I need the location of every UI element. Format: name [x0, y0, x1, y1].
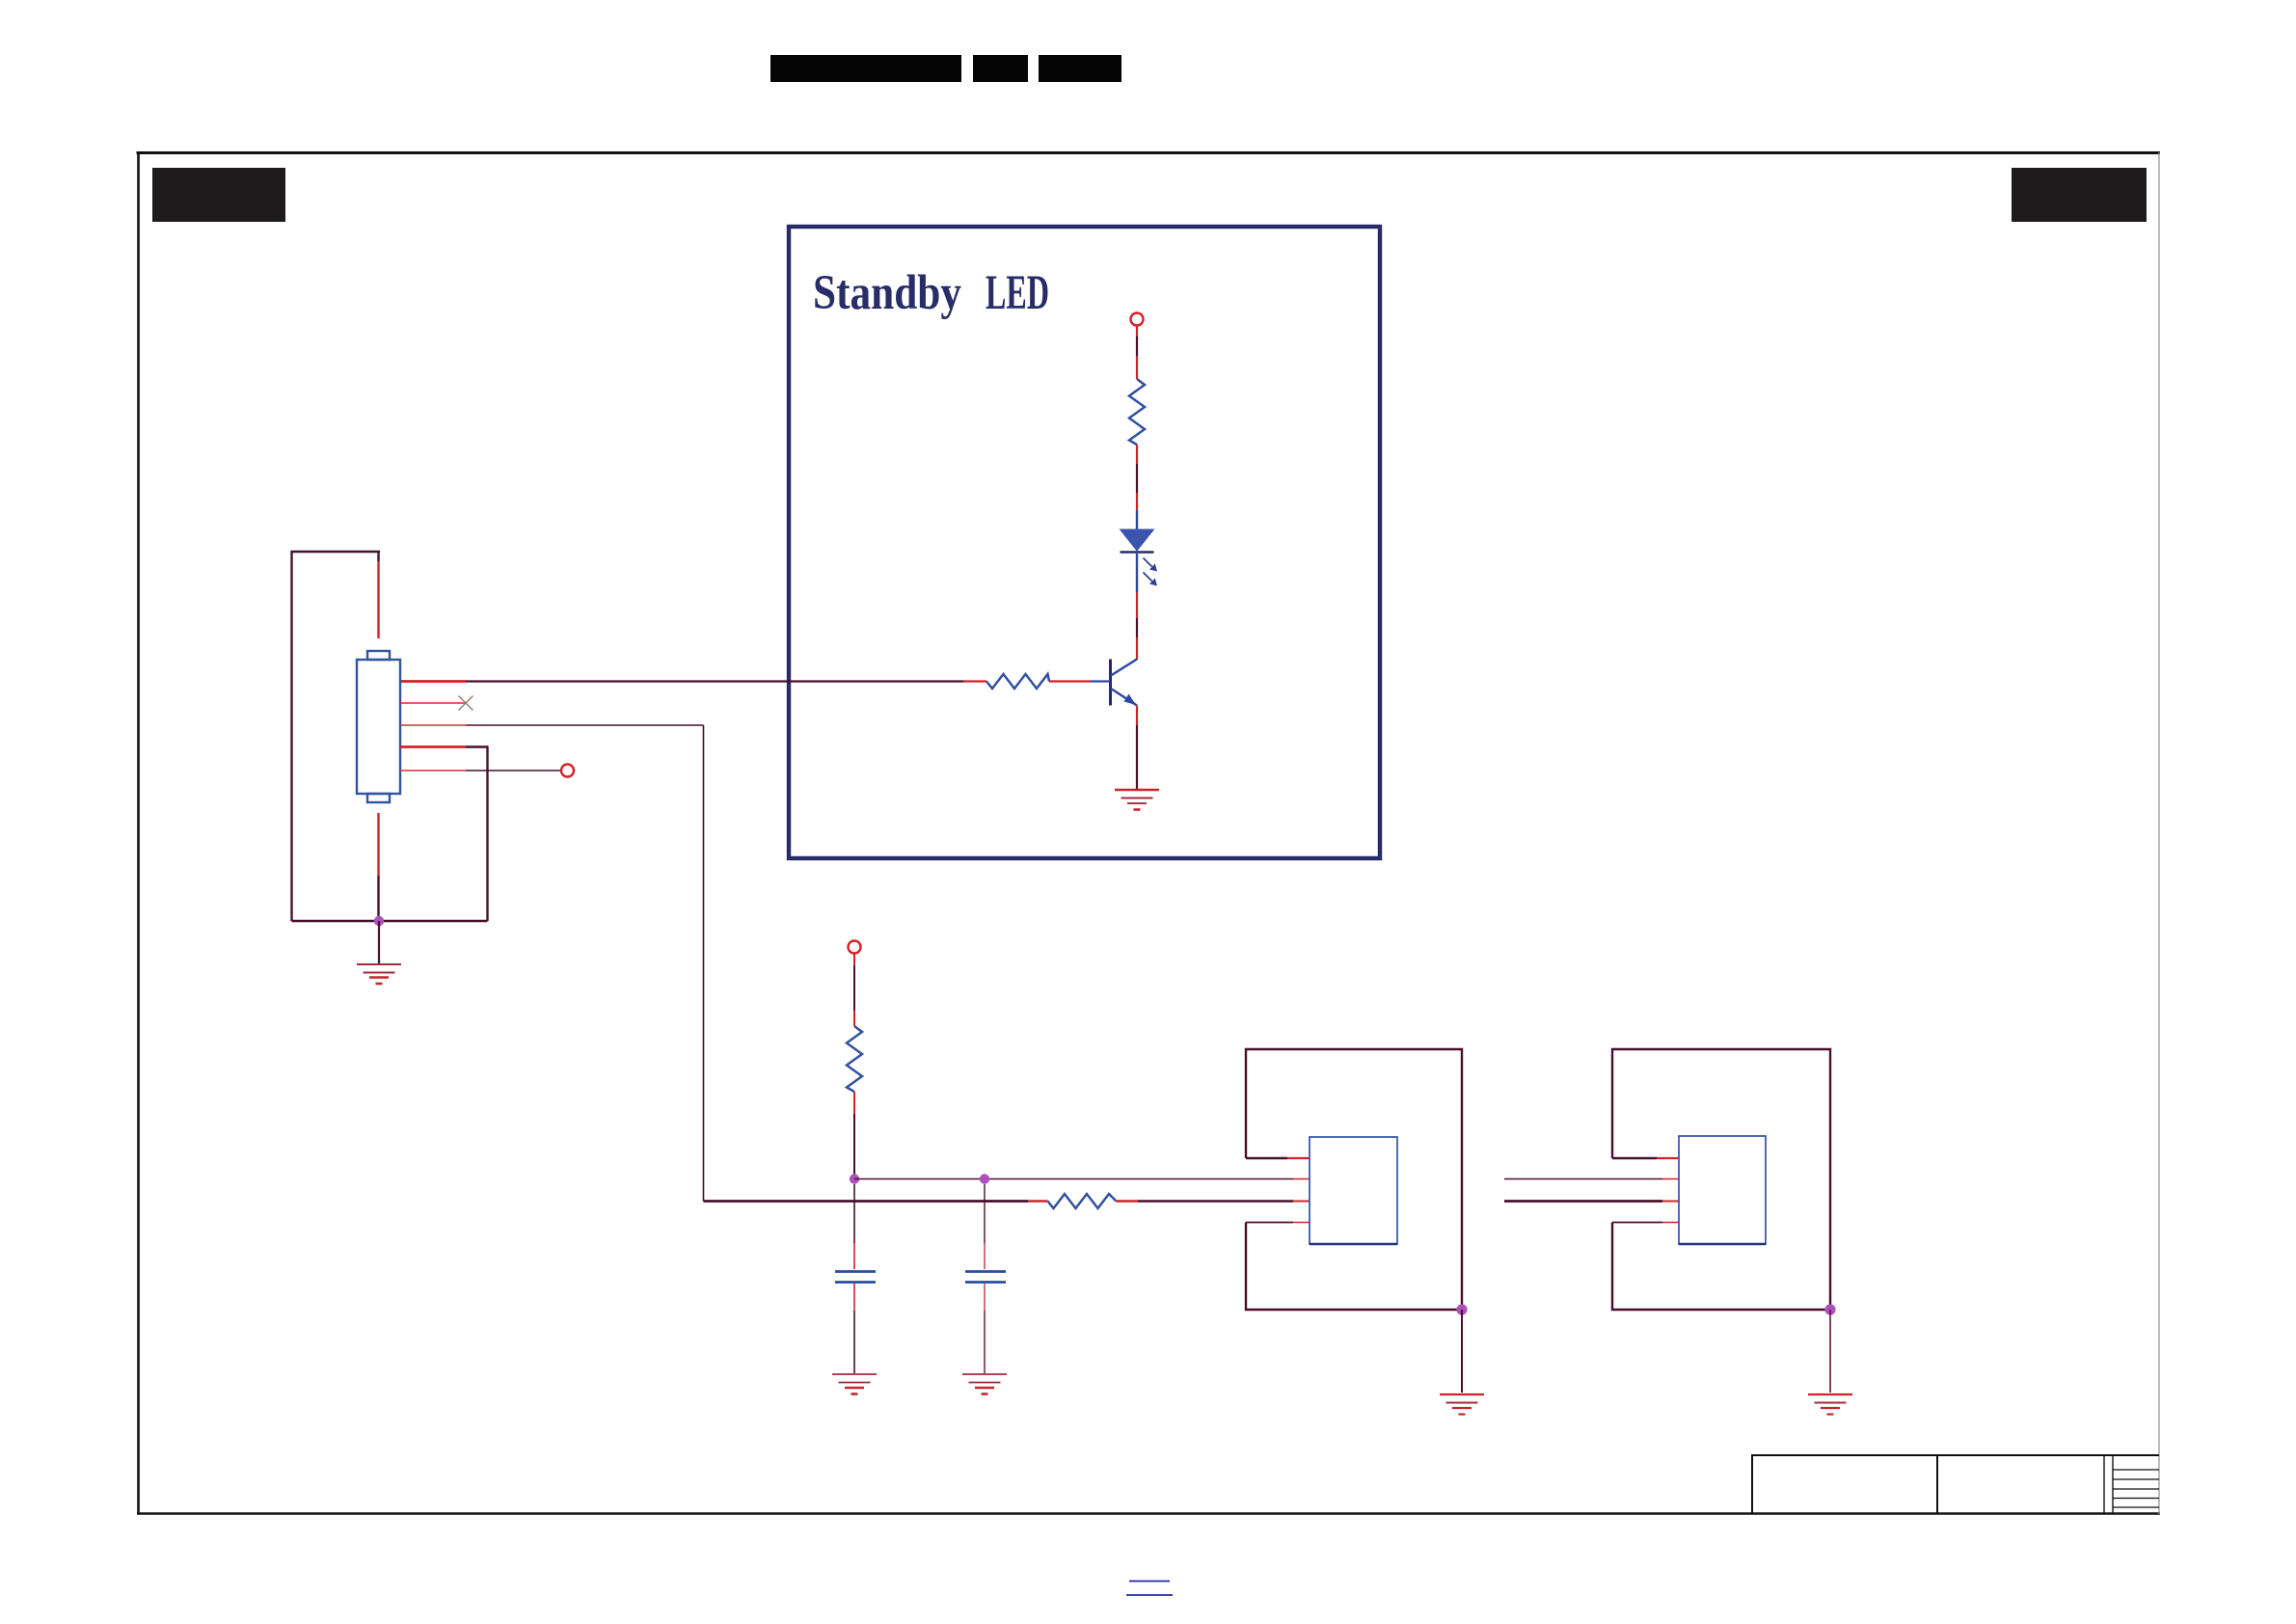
- ground (Q1 emitter): [1115, 790, 1159, 810]
- node terminal (pull-up VCC): [849, 941, 861, 954]
- pin 5 wire: [400, 770, 561, 771]
- redaction bar header 1: [770, 55, 961, 82]
- svg-text:Standby: Standby: [813, 266, 961, 320]
- wire: [1829, 1310, 1831, 1393]
- junction (connector ground net): [374, 916, 384, 926]
- redaction box top-right: [2012, 168, 2147, 222]
- wire: [1049, 680, 1110, 682]
- wire (emitter to ground): [1136, 706, 1138, 790]
- pin2 stub (block1): [1293, 1178, 1310, 1180]
- ground (connector): [357, 964, 401, 984]
- pin1 stub (block1): [1246, 1157, 1310, 1159]
- Standby LED enclosure box: [789, 227, 1380, 858]
- wire loop (block 2): [1612, 1049, 1830, 1310]
- redaction bar header 2: [973, 55, 1028, 82]
- LED D1: [1121, 510, 1158, 592]
- pin2 wire (block2): [1504, 1178, 1679, 1180]
- junction (block2 ground): [1824, 1304, 1835, 1314]
- resistor R base (horizontal zigzag): [986, 674, 1049, 689]
- pin 3 wire: [400, 724, 704, 726]
- IC U2 box: [1679, 1136, 1766, 1244]
- wire: [1136, 326, 1138, 379]
- ground (block2): [1808, 1394, 1852, 1415]
- wire loop (connector left): [292, 552, 488, 921]
- resistor R pull-up (vertical zigzag): [847, 1026, 862, 1092]
- pin 4 wire: [400, 745, 489, 748]
- pin4 stub (block1): [1246, 1222, 1310, 1224]
- wire: [853, 1092, 855, 1175]
- ground (C2): [962, 1374, 1007, 1394]
- node terminal (pin5): [561, 765, 574, 777]
- wire (connector bottom to junction): [377, 813, 379, 919]
- wire (top red drop to connector): [377, 552, 379, 638]
- wire: [378, 921, 380, 963]
- junction (block1 ground): [1456, 1304, 1467, 1314]
- pin3 wire (block2): [1504, 1200, 1679, 1203]
- wire bus (thin, to U1 pin2): [854, 1178, 1293, 1180]
- node VCC terminal (standby LED): [1131, 313, 1144, 326]
- wire: [853, 954, 855, 1026]
- capacitor C1: [835, 1272, 876, 1283]
- sheet border frame: [137, 151, 2161, 1514]
- pin3 stub (block1): [1293, 1201, 1310, 1203]
- wire (junction A down to C1): [853, 1184, 855, 1269]
- redaction bar header 3: [1039, 55, 1121, 82]
- connector J1: [357, 651, 400, 802]
- resistor R standby (vertical zigzag): [1129, 379, 1145, 445]
- footer mark: [1129, 1581, 1170, 1583]
- transistor Q1: [1111, 660, 1138, 706]
- no-connect X mark: [459, 696, 473, 711]
- wire: [853, 1284, 855, 1373]
- wire: [1461, 1310, 1463, 1393]
- wire (base net from connector pin1): [400, 680, 986, 683]
- ground (C1): [832, 1374, 877, 1394]
- svg-text:LED: LED: [986, 266, 1049, 320]
- capacitor C2: [965, 1272, 1006, 1283]
- resistor R series (horizontal zigzag): [1048, 1194, 1117, 1208]
- wire: [984, 1284, 986, 1373]
- title block: [1751, 1454, 2159, 1514]
- wire (junction B down to C2): [984, 1184, 986, 1269]
- junction A: [850, 1174, 859, 1183]
- wire bus (thick, pin3 net): [704, 1200, 1294, 1203]
- wire loop (block 1): [1246, 1049, 1462, 1310]
- pin1 stub (block2): [1612, 1157, 1679, 1159]
- redaction box top-left: [152, 168, 285, 222]
- ground (block1): [1440, 1394, 1484, 1415]
- wire: [1136, 445, 1138, 510]
- pin 2 wire (n.c.): [400, 702, 466, 704]
- junction B: [980, 1174, 989, 1183]
- wire (pin3 drop): [703, 725, 705, 1202]
- pin4 stub (block2): [1612, 1222, 1679, 1224]
- IC U1 box: [1310, 1137, 1397, 1244]
- wire: [1136, 592, 1138, 660]
